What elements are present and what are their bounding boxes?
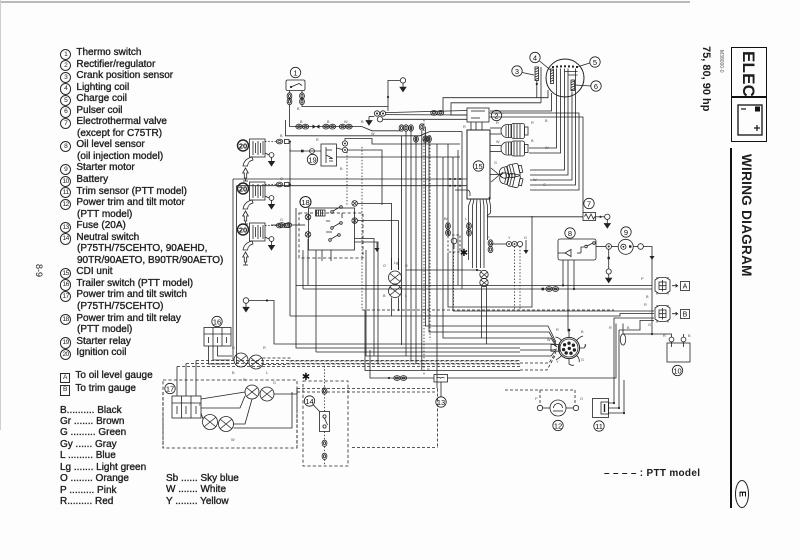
fuse 13 label bbox=[436, 382, 446, 407]
neutral switch 14 label bbox=[304, 396, 320, 412]
wire starter relay right bbox=[337, 139, 461, 206]
CDI unit 15 label bbox=[473, 161, 483, 171]
boxed label A bbox=[681, 282, 690, 291]
lighting coil 4 label bbox=[530, 52, 551, 70]
ignition coil 20 (bottom) label bbox=[238, 224, 249, 235]
wire valve to ground terminal bbox=[596, 214, 611, 228]
svg-text:B: B bbox=[646, 295, 649, 299]
svg-text:17: 17 bbox=[166, 384, 174, 393]
boxed label B bbox=[681, 310, 690, 319]
wire starter relay dotted bbox=[347, 147, 362, 310]
wire fuse feed bbox=[370, 324, 616, 381]
svg-text:G: G bbox=[280, 218, 283, 222]
small dashed box neutral (std) bbox=[448, 235, 468, 259]
wire trim sensor leads bbox=[609, 330, 626, 414]
svg-text:G: G bbox=[232, 346, 235, 350]
svg-text:12: 12 bbox=[554, 421, 562, 430]
starter relay terminals bbox=[337, 141, 348, 153]
junction bullet connectors bbox=[374, 111, 385, 122]
ignition coil 20 (middle) label bbox=[238, 183, 249, 194]
wire CDI bottom fan bbox=[469, 197, 491, 268]
rectifier/regulator 2 bbox=[467, 108, 489, 122]
svg-text:B: B bbox=[232, 371, 235, 375]
spark plug bottom bbox=[243, 241, 253, 265]
crank position sensor coil bbox=[535, 67, 541, 103]
WIRING DIAGRAM bbox=[739, 154, 754, 277]
svg-text:4: 4 bbox=[533, 53, 537, 62]
svg-text:6: 6 bbox=[594, 82, 598, 91]
svg-text:W: W bbox=[496, 140, 500, 144]
svg-text:7: 7 bbox=[587, 199, 591, 208]
coil top connector bbox=[265, 141, 276, 143]
trim sensor 11 bbox=[593, 399, 609, 418]
svg-text:G: G bbox=[524, 236, 527, 240]
wire CDI left bundle bbox=[233, 178, 470, 364]
trailer switch connector pair bbox=[234, 353, 263, 369]
svg-text:R: R bbox=[316, 138, 319, 142]
connector pairs below CDI bbox=[446, 223, 493, 253]
svg-text:13: 13 bbox=[437, 398, 445, 407]
wire trailer switch to connectors bbox=[209, 346, 233, 364]
PTT switch bbox=[172, 396, 201, 418]
gauge connector B bbox=[655, 305, 670, 323]
svg-text:G: G bbox=[383, 264, 386, 268]
wire relay18 down bbox=[303, 239, 308, 289]
svg-text:W: W bbox=[344, 120, 348, 124]
PTT motor connector pair bbox=[389, 258, 402, 316]
svg-text:O: O bbox=[580, 397, 583, 401]
svg-text:11: 11 bbox=[595, 422, 603, 431]
svg-text:R: R bbox=[263, 346, 266, 350]
wire junction arrow bbox=[375, 242, 380, 252]
wire starter relay left bbox=[290, 149, 321, 154]
svg-text:O: O bbox=[280, 177, 283, 181]
wire trunk top connectors bbox=[399, 124, 431, 142]
coil bottom ground bbox=[265, 237, 275, 250]
ground lower left bbox=[243, 298, 520, 344]
svg-text:B: B bbox=[199, 403, 202, 407]
trailer switch 16 label bbox=[212, 316, 222, 326]
gauge connector A bbox=[655, 277, 670, 295]
svg-text:W: W bbox=[371, 132, 375, 136]
battery icon box bbox=[731, 96, 767, 142]
stamp E bbox=[736, 481, 749, 508]
starter motor 9 bbox=[612, 239, 644, 254]
CDI unit 15 bbox=[467, 130, 490, 199]
svg-text:✱: ✱ bbox=[302, 372, 310, 383]
starter relay 19 bbox=[321, 144, 337, 166]
svg-text:L: L bbox=[266, 371, 268, 375]
svg-text:18: 18 bbox=[301, 198, 309, 207]
svg-text:20: 20 bbox=[239, 184, 247, 193]
wire neutral std dotted drop bbox=[453, 253, 455, 308]
battery 10 bbox=[667, 337, 690, 362]
rectifier 2 label bbox=[491, 110, 501, 120]
wire harness lead with inline connectors bbox=[290, 124, 401, 131]
PTT motor 12 label bbox=[553, 420, 563, 430]
wire B feed lines bbox=[290, 311, 654, 330]
svg-text:W: W bbox=[231, 438, 235, 442]
svg-text:15: 15 bbox=[474, 162, 482, 171]
svg-text:16: 16 bbox=[213, 317, 221, 326]
svg-text:10: 10 bbox=[673, 366, 681, 375]
neutral switch 14 dashed box bbox=[303, 381, 348, 466]
svg-text:14: 14 bbox=[305, 397, 313, 406]
svg-text:5: 5 bbox=[593, 58, 597, 67]
coil bottom connector bbox=[265, 225, 276, 227]
svg-text:2: 2 bbox=[494, 111, 498, 120]
svg-text:P: P bbox=[535, 397, 538, 401]
wire relay outputs bbox=[322, 239, 378, 364]
trailer switch 16 bbox=[204, 328, 231, 347]
wire motor to battery feed bbox=[643, 247, 654, 335]
PTT motor 12 bbox=[537, 400, 578, 416]
wire harness fan left bbox=[520, 326, 557, 370]
svg-text:B: B bbox=[361, 120, 364, 124]
svg-text:G: G bbox=[494, 161, 497, 165]
svg-text:✱: ✱ bbox=[460, 248, 468, 259]
wire dashed bus band bbox=[163, 310, 614, 448]
wire valve feed left bbox=[487, 216, 583, 218]
svg-text:Y: Y bbox=[556, 360, 559, 364]
svg-text:R: R bbox=[243, 378, 246, 382]
neutral switch 14 bbox=[320, 412, 330, 432]
pulser coil bbox=[571, 80, 575, 91]
oil level sensor 8 label bbox=[565, 228, 575, 238]
pulser coil 6 label bbox=[575, 81, 601, 91]
PTT relay terminals bbox=[305, 201, 357, 238]
wire flywheel leads to elbows bbox=[443, 69, 578, 186]
svg-text:B: B bbox=[581, 330, 584, 334]
legend list bbox=[60, 47, 223, 359]
svg-text:G: G bbox=[648, 323, 651, 327]
svg-text:W: W bbox=[533, 178, 537, 182]
thermo switch 1 label bbox=[290, 67, 300, 77]
wire CDI fan collector bbox=[406, 269, 481, 271]
starter relay 19 label bbox=[307, 154, 317, 164]
wire thermo left pin down bbox=[289, 105, 291, 127]
svg-text:L: L bbox=[584, 344, 586, 348]
ground (left of junction) bbox=[366, 117, 374, 126]
connector pair stack 1 bbox=[490, 124, 528, 139]
svg-text:G: G bbox=[543, 183, 546, 187]
svg-text:R: R bbox=[496, 121, 499, 125]
ELEC box bbox=[731, 47, 767, 98]
svg-text:R: R bbox=[405, 264, 408, 268]
main harness connector bbox=[551, 329, 586, 366]
svg-text:G: G bbox=[581, 358, 584, 362]
svg-text:20: 20 bbox=[239, 225, 247, 234]
sidebar divider bbox=[730, 148, 732, 508]
arrow to B bbox=[672, 312, 678, 315]
colour code list bbox=[60, 405, 146, 508]
coil middle connector bbox=[265, 184, 276, 186]
svg-text:B: B bbox=[340, 167, 343, 171]
svg-text:B: B bbox=[300, 120, 303, 124]
svg-text:8: 8 bbox=[568, 229, 572, 238]
svg-text:P: P bbox=[641, 277, 644, 281]
wire coil bus vertical bbox=[289, 141, 291, 226]
electrothermal valve 7 label bbox=[584, 198, 594, 208]
wire PTT switch feeds up bbox=[177, 361, 196, 397]
ignition coil 20 (top) label bbox=[238, 140, 249, 151]
wire stub arrow bbox=[524, 240, 529, 254]
svg-text:3: 3 bbox=[515, 67, 519, 76]
gauge refs bbox=[60, 370, 153, 396]
svg-text:Y: Y bbox=[508, 236, 511, 240]
wire A feed lines bbox=[296, 216, 652, 307]
spark plug middle bbox=[243, 200, 253, 224]
PTT switch 17 label bbox=[165, 383, 175, 393]
coil middle ground bbox=[265, 196, 275, 209]
wire rectifier to elbows bbox=[489, 113, 583, 213]
PTT relay 18 bbox=[309, 206, 355, 250]
svg-text:B: B bbox=[531, 139, 534, 143]
svg-text:L: L bbox=[465, 217, 467, 221]
svg-text:1: 1 bbox=[293, 68, 297, 77]
svg-text:P: P bbox=[487, 236, 490, 240]
scan edge left bbox=[0, 0, 1, 430]
PTT switch connector pair upper bbox=[245, 385, 274, 401]
wire battery feeds bbox=[620, 324, 683, 346]
svg-text:E: E bbox=[738, 491, 748, 497]
svg-text:B: B bbox=[688, 334, 691, 338]
svg-text:R: R bbox=[556, 328, 559, 332]
svg-text:R: R bbox=[644, 303, 647, 307]
wire crank sensor down bbox=[536, 81, 538, 98]
oil level sensor 8 bbox=[558, 239, 596, 260]
svg-text:B: B bbox=[327, 120, 330, 124]
page number 8-9 bbox=[34, 264, 44, 277]
svg-text:B: B bbox=[383, 294, 386, 298]
neutral switch connectors bbox=[322, 388, 327, 460]
svg-text:G: G bbox=[273, 381, 276, 385]
coil top ground bbox=[265, 153, 275, 166]
CDI connector stack bbox=[480, 270, 488, 344]
svg-text:9: 9 bbox=[624, 228, 628, 237]
svg-text:R: R bbox=[609, 326, 612, 330]
ground (top) bbox=[400, 78, 406, 92]
svg-text:Lg: Lg bbox=[394, 261, 398, 265]
wire neutral switch dotted bbox=[324, 366, 326, 466]
svg-text:20: 20 bbox=[239, 141, 247, 150]
svg-text:W: W bbox=[545, 146, 549, 150]
wire thermo right pin to ground bbox=[302, 80, 400, 106]
wire PTT motor dashed leads bbox=[505, 390, 575, 405]
fuse 13 bbox=[434, 375, 448, 383]
PTT switch connector pair lower bbox=[203, 415, 234, 432]
wire bus band bbox=[290, 208, 520, 371]
wire trunk dashed verticals bbox=[424, 120, 430, 376]
PTT relay left connector bbox=[271, 223, 305, 228]
svg-text:B: B bbox=[627, 326, 630, 330]
connector pair stack 2 bbox=[490, 141, 528, 156]
PTT relay 18 dashed box bbox=[299, 213, 363, 258]
svg-text:R: R bbox=[463, 125, 466, 129]
lighting coil bbox=[551, 69, 554, 84]
charge coil bbox=[552, 65, 578, 68]
thermo switch pins bbox=[287, 91, 304, 105]
wire PTT switch wiring bbox=[201, 389, 438, 448]
svg-text:19: 19 bbox=[308, 155, 316, 164]
svg-text:R: R bbox=[531, 121, 534, 125]
svg-text:B: B bbox=[545, 119, 548, 123]
svg-text:L: L bbox=[405, 294, 407, 298]
wire rectifier to CDI bbox=[471, 122, 482, 130]
wire sensor 8 drops bbox=[562, 260, 575, 332]
sensor 8 output terminal bbox=[596, 244, 612, 283]
svg-text:B: B bbox=[683, 312, 688, 319]
sidebar 75,80,90 hp bbox=[700, 46, 712, 111]
charge coil 5 label bbox=[579, 57, 601, 67]
svg-text:B: B bbox=[297, 107, 300, 111]
svg-text:B: B bbox=[280, 134, 283, 138]
svg-text:R: R bbox=[427, 368, 430, 372]
wire trailer connectors out bbox=[263, 358, 521, 365]
wire junction to rectifier bbox=[383, 110, 467, 119]
trim sensor 11 label bbox=[594, 421, 604, 431]
ignition coil 20 (bottom) bbox=[250, 223, 266, 241]
wire bullet row dotted drops bbox=[515, 247, 521, 310]
starter motor 9 label bbox=[621, 227, 631, 237]
scan edge top bbox=[0, 1, 690, 3]
connector pair stack 3 crossed bbox=[498, 162, 523, 180]
ignition coil 20 (top) bbox=[250, 139, 266, 157]
svg-text:R: R bbox=[663, 334, 666, 338]
wire trunk verticals bbox=[358, 127, 521, 388]
thermo switch 1 bbox=[286, 80, 305, 91]
sidebar tiny code bbox=[718, 50, 724, 73]
wire colour tick labels bbox=[199, 107, 691, 442]
spark plug top bbox=[243, 157, 253, 181]
electrothermal valve 7 bbox=[583, 213, 596, 221]
PTT switch 17 dashed box bbox=[163, 380, 297, 448]
wire lower lead bbox=[286, 120, 463, 136]
PTT model note bbox=[604, 468, 700, 479]
battery 10 label bbox=[672, 365, 682, 375]
svg-text:A: A bbox=[683, 284, 688, 291]
battery icon bbox=[731, 96, 768, 143]
svg-text:W: W bbox=[547, 338, 551, 342]
PTT relay 18 label bbox=[300, 197, 311, 208]
flywheel rotor 3-6 bbox=[546, 59, 584, 97]
bullet connector row bbox=[491, 241, 523, 246]
ignition coil 20 (middle) bbox=[250, 182, 266, 200]
crank position sensor 3 label bbox=[512, 66, 534, 76]
arrow to A bbox=[672, 284, 678, 287]
